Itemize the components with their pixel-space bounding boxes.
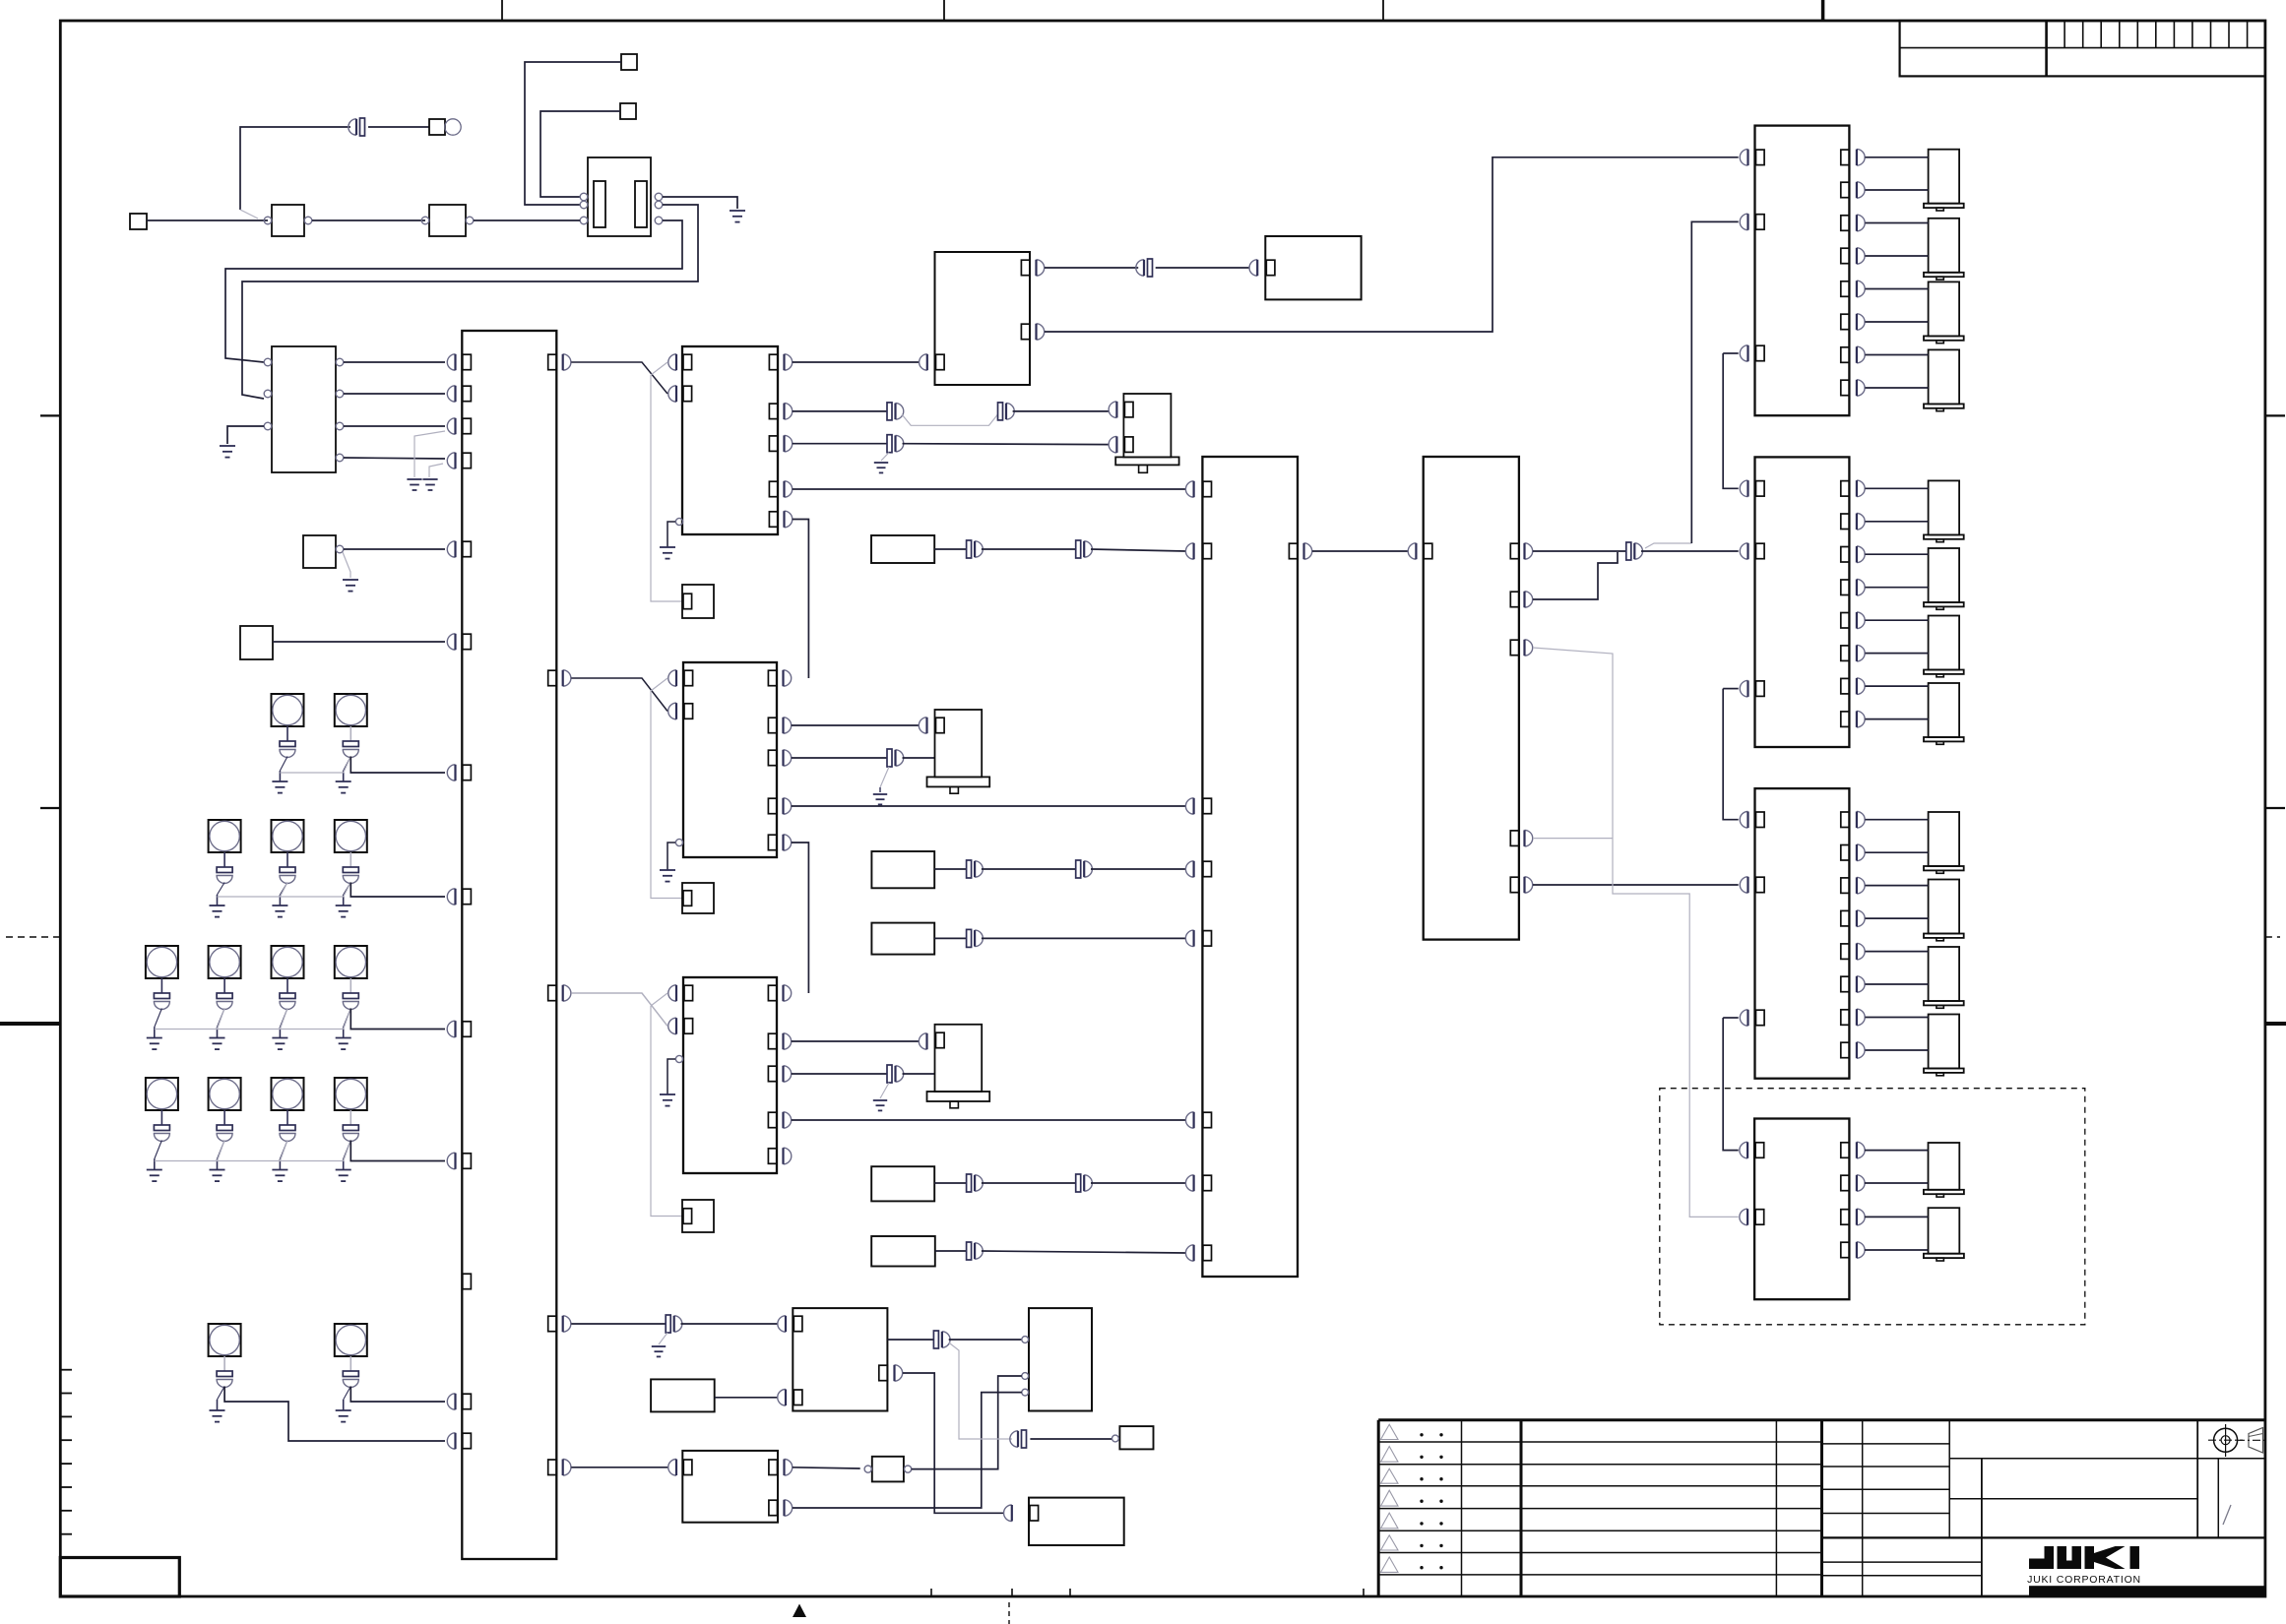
wire SB1 to TB1 [934,540,1193,559]
scale slash mark [2223,1505,2231,1525]
CN-C right pins [768,985,791,1164]
title block black bar [2029,1586,2265,1596]
gray gnd stub A3 [874,453,889,473]
junction bus TB2 [1424,457,1519,940]
logic box BZ [1022,1308,1092,1410]
sensor cap wire top [240,127,350,210]
sensor row B (3 sensors) [209,820,367,917]
connector block CN-A [571,346,778,618]
diag join [240,210,258,219]
indicator lamp LP1 [429,119,461,135]
wire IF1 out3 [344,425,445,427]
wire C4 to TB1 [792,1112,1194,1128]
ground G-IF2 [407,479,421,490]
gray stub g3 [414,431,445,477]
wire rowB to bus [350,883,445,898]
gray drop to pair PE [949,1343,1012,1439]
wire TM1 to relay [525,62,621,205]
solenoid valve SV-M [1109,394,1178,472]
bottom centre mark triangle [793,1604,806,1618]
revision table grid [1378,1420,2265,1596]
gray gnd stub C3 [873,1083,889,1110]
link up to CB-R1 [1645,221,1739,548]
net TB2-899 to CB-R3 [1533,884,1739,886]
wire CN-D top to BZ [887,1331,1021,1348]
junction bus TB1 [1202,457,1298,1277]
wire into CB-R2 pin3 [1723,688,1739,690]
left border ruler ticks [60,1370,72,1534]
sensor box SB1 [871,535,934,563]
sensor box SB4 [871,1166,934,1201]
wire relay to ground [663,197,737,209]
wire pair to lamp [368,126,429,128]
output block CB-R5 [1740,1119,1964,1300]
operation panel CNU [1265,236,1361,299]
inverter IC2 [421,205,474,236]
solenoid valve SV2 [927,1025,990,1108]
gray net TB2-658 [1533,648,1739,1217]
aux box BX [651,1379,715,1411]
gray stub SW1 [343,552,350,578]
link CB-R3 to CB-R5 [1723,1018,1739,1151]
wire A2 pair [793,403,904,420]
gray Y link [902,414,998,425]
top-right revision strip table [1900,21,2265,76]
wire rowD to bus [350,1141,445,1161]
terminal square TM2 [620,103,636,119]
bottom-left reference box [60,1558,179,1597]
right border marks [2265,415,2286,1024]
wire CN-E2 to BZ [793,1393,1022,1508]
relay K1 [580,157,663,236]
BUS1 left pins [447,354,471,1449]
sensor row D (4 sensors) [146,1078,367,1181]
wire SB2 to TB1 [934,860,1193,878]
CN-A right pins [769,354,792,528]
title block grid [1822,1420,2265,1596]
wire A1 to CNT [793,354,927,370]
top border zone ticks [502,0,1823,21]
sensor box SB2 [871,851,934,888]
left border marks [0,415,60,1024]
wire IF1 gnd pin [227,426,264,444]
wire SB5 to TB1 [935,1242,1194,1261]
interface box IF1 [264,346,344,472]
sensor box SB5 [871,1236,935,1267]
wire BX to CN-D [715,1390,786,1406]
wire IC1-IC2 [312,219,425,221]
net TB2-560 [1533,542,1739,560]
wire input chain [147,219,268,221]
wire rowC to bus [350,1009,445,1030]
wire B3 pair to S1 [792,749,935,767]
logic gate G1 [864,1457,912,1482]
wire into CB-R1 pin3 [1723,352,1739,354]
terminal box BZZ [1112,1426,1154,1449]
drive box CN-D [793,1308,902,1410]
sensor row E (2 sensors) [209,1324,367,1422]
wire SW2 to bus [273,641,445,643]
ground G-K1 [730,211,745,222]
output block CB-R2 [1740,457,1963,747]
wire IF1 out2 [344,393,445,395]
wire A5 down to CN-B [793,520,809,679]
bottom border zone ticks [931,1589,1364,1624]
wire IF1 out4 [344,458,445,459]
connector block CN-B [571,662,777,913]
ground G-IF3 [422,479,437,490]
wire bus to CN-E [571,1460,676,1476]
wiring bus BUS1 [462,331,556,1559]
solenoid valve SV1 [927,710,990,793]
wire relay out3 [225,220,682,362]
JUKI CORPORATION text [2027,1574,2141,1586]
wire A3 pair [793,435,1110,453]
wire bus to CN-D [571,1315,786,1333]
switch box SW1 [303,535,344,568]
wire TB1-TB2 [1304,543,1417,559]
wire CN-E to gate [793,1468,860,1468]
wire B5 down to CN-C [792,843,809,993]
wire C3 pair to S2 [792,1065,935,1083]
wire SB4 to TB1 [934,1174,1193,1192]
wire CNT to CNU [1045,259,1257,277]
JUKI logo [2029,1546,2139,1569]
wire IF1 out1 [344,361,445,363]
gray gnd stub D1 [652,1333,667,1356]
gray net TB2-851 [1533,838,1613,840]
wire CNT2 to CB-R1 [1045,157,1739,332]
wire relay out2 [242,205,698,399]
wire A4 to TB1 [793,481,1194,497]
wire rowE s1 to bus [224,1387,445,1442]
control box CNT [935,252,1045,385]
wire rowE s2 to bus [350,1387,445,1403]
wire IC2-relay [474,219,580,221]
BUS1 right pins [548,354,571,1475]
wire G1 to BZ [912,1376,1022,1469]
gray gnd stub B3 [873,767,889,804]
ground G-SW1 [343,580,358,592]
sensor box SB3 [871,923,934,955]
wire CN-D right down to BY [903,1373,1012,1522]
link CB-R2 to CB-R3 [1723,689,1739,820]
wire rowA to bus [350,757,445,774]
connector pair PE [1010,1430,1111,1448]
terminal square TM1 [621,54,637,70]
connector block CN-C [571,977,777,1232]
wire TM2 to relay [540,111,620,197]
inverter IC1 [264,205,312,236]
ground G-IF1 [220,446,235,458]
sensor row C (4 sensors) [146,946,367,1049]
wire SW1 to bus [344,548,445,550]
wire B2 to S1 [792,718,927,733]
first angle projection symbol [2208,1424,2267,1457]
CN-B right pins [768,670,791,850]
wire SB3 to TB1 [934,929,1193,947]
net TB2-609 staircase [1533,552,1618,599]
connector pair P-top [349,118,365,136]
io box CN-E [682,1451,792,1523]
gray stub g4 [429,464,443,477]
TB2 right pin domes [1525,543,1533,893]
output block CB-R1 [1740,126,1963,416]
wire into CB-R3 pin3 [1723,1017,1739,1019]
wire C2 to S2 [792,1033,927,1049]
svg-text:JUKI CORPORATION: JUKI CORPORATION [2027,1574,2141,1586]
output block CB-R3 [1740,788,1963,1079]
wire B4 to TB1 [792,798,1194,814]
sensor row A (2 sensors) [272,694,367,793]
relay box BY [1029,1498,1124,1545]
revision table triangle markers [1381,1424,1443,1572]
wire A2b to solenoid [998,403,1110,420]
input terminal square TM3 [130,214,147,229]
switch box SW2 [240,626,273,659]
optional unit dashed outline [1660,1089,2085,1325]
link CB-R1 to CB-R2 [1723,353,1739,488]
